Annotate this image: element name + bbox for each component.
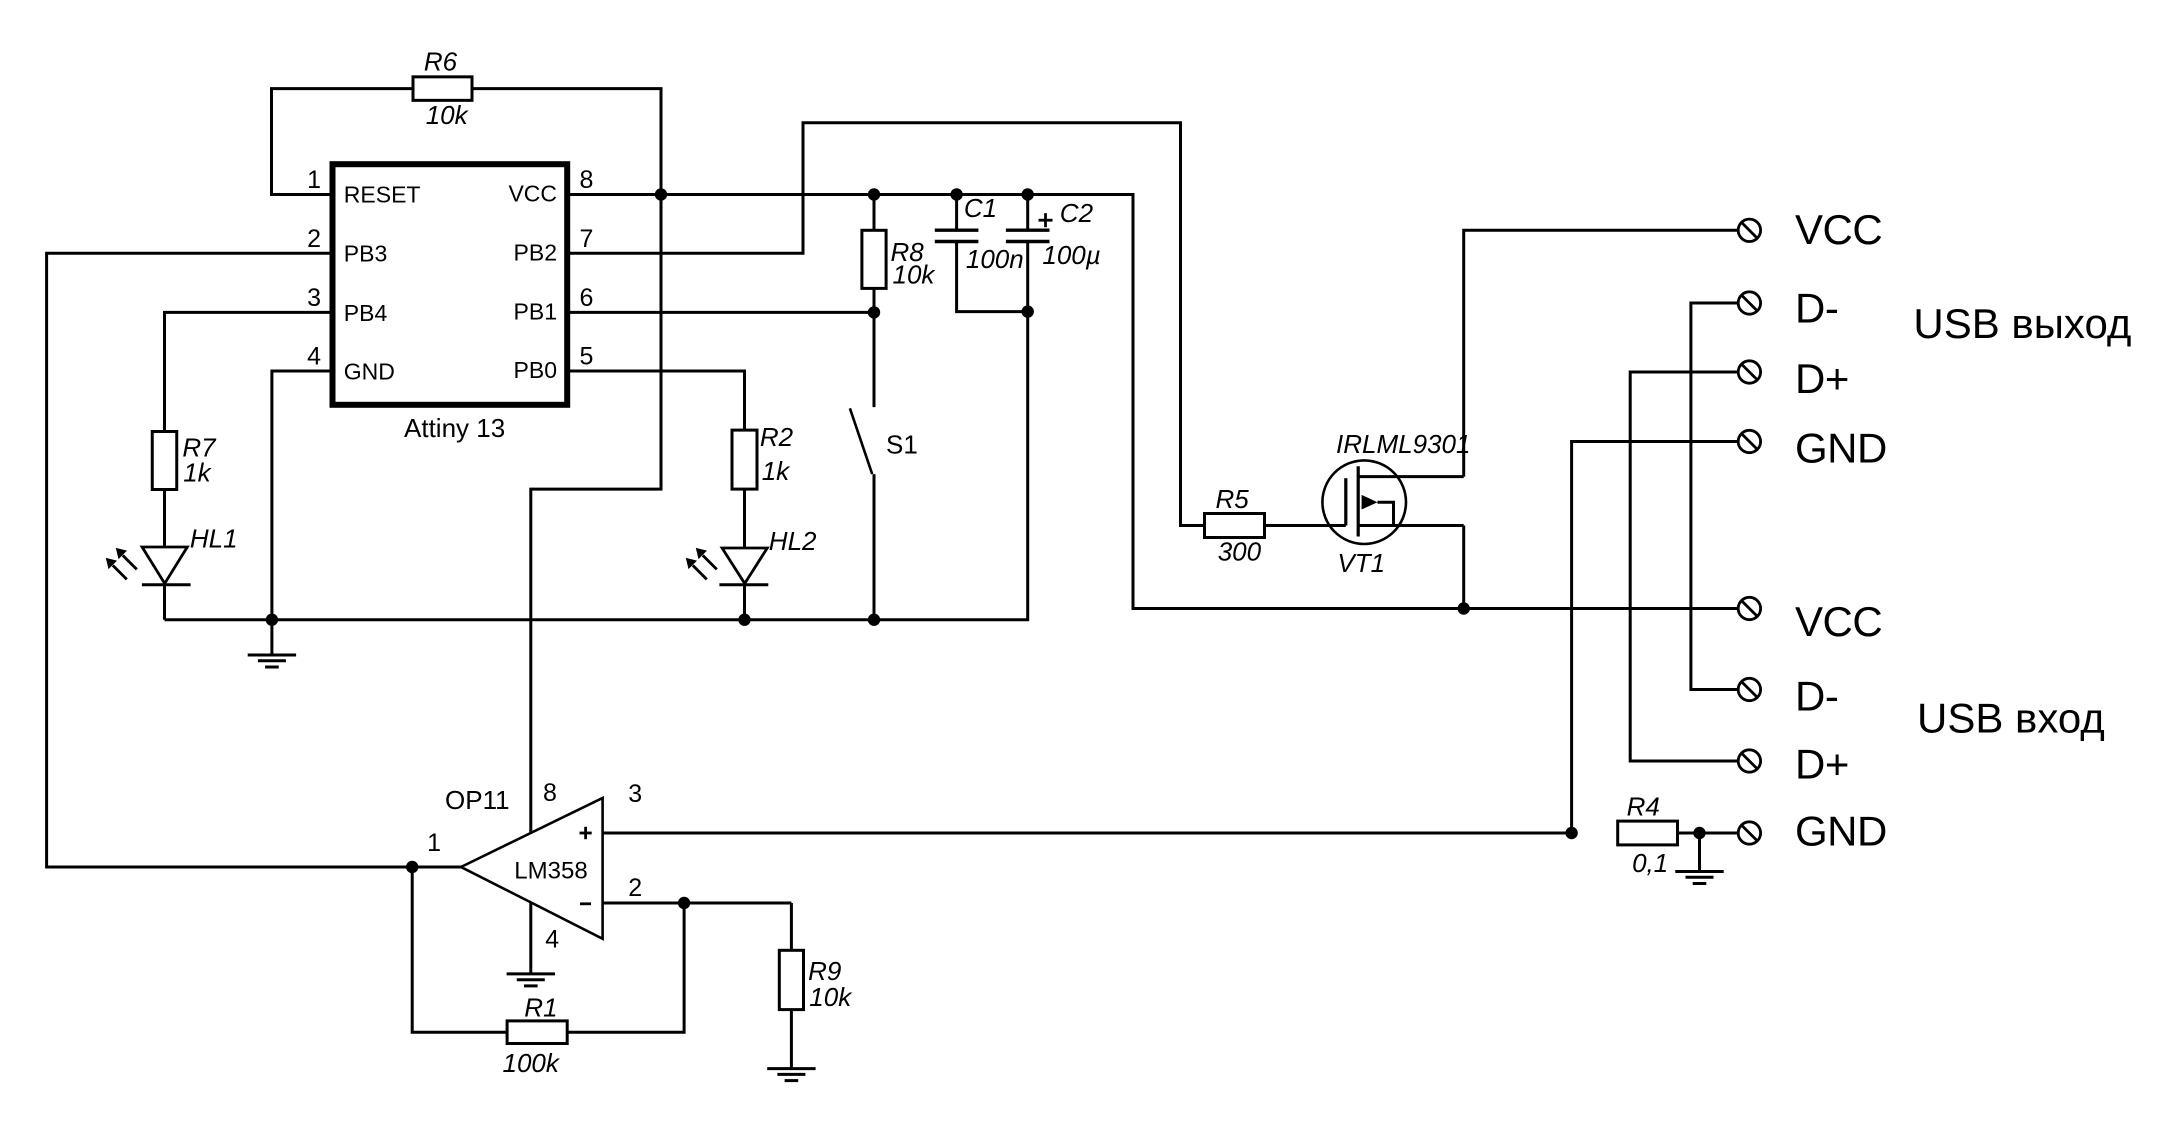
node S1 on bus [868,614,880,626]
svg-text:10k: 10k [809,982,853,1012]
node PB1/R8/S1 junction [868,306,880,318]
wire USB-out GND route [1572,442,1739,834]
LED HL2 [722,548,767,584]
node C2 on VCC rail [1021,188,1033,200]
resistor R5 [1205,514,1265,538]
svg-text:LM358: LM358 [514,858,587,885]
svg-text:GND: GND [344,359,395,385]
svg-text:C1: C1 [964,193,997,223]
svg-text:S1: S1 [886,429,918,459]
svg-text:D-: D- [1795,672,1838,719]
node R8 top on VCC rail [868,188,880,200]
wire PB3 to op-amp output node [47,253,413,867]
terminal USB-in GND [1738,822,1760,844]
svg-text:4: 4 [307,343,321,371]
wire output node to R1 [412,867,507,1032]
wire C1 top stub [955,195,958,231]
node R4 left junction [1565,827,1577,839]
wire C1 bottom to C2 bottom [957,242,1028,312]
VT1 source stub [1358,475,1464,478]
wire C2 bottom [1026,242,1029,312]
svg-text:7: 7 [580,225,594,253]
svg-text:GND: GND [1795,808,1887,855]
svg-text:USB выход: USB выход [1913,300,2131,347]
terminal USB-out GND [1738,430,1760,452]
op-amp plus sign [580,832,592,835]
svg-text:VCC: VCC [508,181,557,207]
op-amp minus sign [580,902,591,905]
wire R9 to ground [790,1010,793,1069]
wire HL2 to ground bus [743,584,746,620]
svg-text:10k: 10k [426,100,470,130]
terminal USB-in VCC [1738,597,1760,619]
wire R5 to VT1 gate [1264,524,1346,527]
svg-text:VCC: VCC [1795,598,1882,645]
wire USB-out D- route [1691,303,1738,690]
svg-text:R4: R4 [1627,791,1660,821]
wire VCC rail pin8 to USB-in VCC [567,195,1738,609]
svg-text:D+: D+ [1795,355,1849,402]
wire PB2 to R5 [567,123,1205,526]
svg-text:HL1: HL1 [190,524,238,554]
svg-text:0,1: 0,1 [1632,848,1668,878]
svg-text:GND: GND [1795,425,1887,472]
resistor R6 [413,77,472,101]
svg-text:PB3: PB3 [344,240,387,266]
node VCC at pin8 [655,188,667,200]
node C-bottom junction [1021,305,1033,317]
wire inverting input [603,902,792,905]
svg-text:6: 6 [580,284,594,312]
svg-text:C2: C2 [1060,198,1094,228]
svg-text:R6: R6 [424,47,458,77]
ground symbol at R4 [1675,870,1723,873]
svg-text:R2: R2 [760,422,794,452]
capacitor C2 [1006,228,1050,231]
capacitor C1 [935,228,979,231]
resistor R1 [507,1021,567,1044]
resistor R2 [732,430,757,489]
svg-text:HL2: HL2 [769,526,817,556]
node inverting input / R1 [678,897,690,909]
wire PB1 to R8 bottom node [567,311,874,314]
wire PB0 to R2 [567,371,745,431]
terminal USB-out D+ [1738,361,1760,383]
transistor VT1 body circle [1322,460,1406,544]
svg-text:R1: R1 [524,993,557,1023]
wire ground stub [270,620,273,655]
wire GND pin to ground bus [272,371,333,620]
svg-text:3: 3 [307,284,321,312]
wire op-amp output [412,866,461,869]
VT1 drain stub [1358,524,1464,527]
wire R8 top stub [873,195,876,232]
wire R4 right to terminal [1678,832,1739,835]
VT1 gate bar [1344,478,1347,525]
wire R8 bottom to PB1 node [873,288,876,312]
svg-text:3: 3 [628,780,642,808]
VT1 body arrow [1362,495,1378,510]
svg-text:8: 8 [580,166,594,194]
svg-text:OP11: OP11 [445,785,510,815]
resistor R7 [152,432,177,490]
svg-text:IRLML9301: IRLML9301 [1336,429,1470,459]
svg-text:PB2: PB2 [514,239,557,265]
svg-text:VT1: VT1 [1337,548,1385,578]
wire pin1 RESET to R6 left [272,89,415,195]
svg-text:100k: 100k [503,1048,561,1078]
terminal USB-in D+ [1738,750,1760,772]
svg-text:VCC: VCC [1795,206,1882,253]
svg-text:8: 8 [543,779,557,807]
svg-text:USB вход: USB вход [1917,694,2105,741]
node drain on VCC-in bus [1458,602,1470,614]
svg-text:1k: 1k [183,457,212,487]
node ground bus / GND pin [266,614,278,626]
wire inverting line to R9 [790,903,793,951]
ground symbol at op-amp pin4 [507,972,555,975]
svg-text:300: 300 [1218,537,1262,567]
wire R1 to inverting node [567,903,684,1032]
IC U1 Attiny 13 body [333,164,568,405]
wire VT1 source to USB-out VCC [1464,230,1739,476]
svg-text:10k: 10k [893,260,937,290]
resistor R4 [1618,821,1678,845]
svg-text:R5: R5 [1216,484,1250,514]
svg-text:100µ: 100µ [1042,240,1100,270]
svg-text:1: 1 [307,166,321,194]
wire VT1 drain to VCC-in bus [1462,526,1465,609]
svg-text:D+: D+ [1795,741,1849,788]
wire S1 upper stub [873,312,876,407]
wire non-inverting input to R4 node [603,832,1572,835]
wire C2 top stub [1026,195,1029,231]
svg-text:1k: 1k [762,456,791,486]
svg-text:PB1: PB1 [514,298,557,324]
wire R4 node to ground [1698,833,1701,872]
terminal USB-out D- [1738,292,1760,314]
terminal USB-out VCC [1738,219,1760,241]
wire R6 right to VCC node [471,89,661,195]
wire ground bus [165,312,1028,620]
terminal USB-in D- [1738,678,1760,700]
node C1 on VCC rail [950,188,962,200]
wire R7 to HL1 [163,489,166,547]
svg-text:4: 4 [545,925,559,953]
svg-text:5: 5 [580,343,594,371]
svg-text:2: 2 [307,225,321,253]
wire op-amp pin4 to ground [529,902,532,974]
wire HL1 to ground bus [163,584,166,620]
C2 polarity plus [1039,219,1053,222]
wire USB-out D+ route [1630,372,1738,761]
op-amp U2 triangle [461,798,603,939]
resistor R9 [779,950,803,1009]
svg-text:100n: 100n [966,244,1024,274]
wire R2 to HL2 [743,489,746,548]
LED HL1 [142,547,187,584]
wire PB4 to R7 [165,312,333,432]
wire VCC to op-amp supply [531,195,661,834]
wire S1 lower stub to ground bus [873,474,876,620]
node R4 right junction [1693,827,1705,839]
switch S1 blade [850,408,872,474]
resistor R8 [862,230,886,288]
svg-text:Attiny 13: Attiny 13 [404,413,505,443]
ground symbol at R9 [767,1067,815,1070]
svg-text:1: 1 [427,829,441,857]
node HL2 on bus [738,614,750,626]
svg-text:PB4: PB4 [344,300,388,326]
svg-text:PB0: PB0 [514,357,557,383]
node op-amp output [406,861,418,873]
ground symbol at IC GND [248,654,296,657]
svg-text:D-: D- [1795,284,1838,331]
svg-text:RESET: RESET [344,182,421,208]
VT1 channel bar [1357,466,1360,536]
svg-text:2: 2 [628,874,642,902]
